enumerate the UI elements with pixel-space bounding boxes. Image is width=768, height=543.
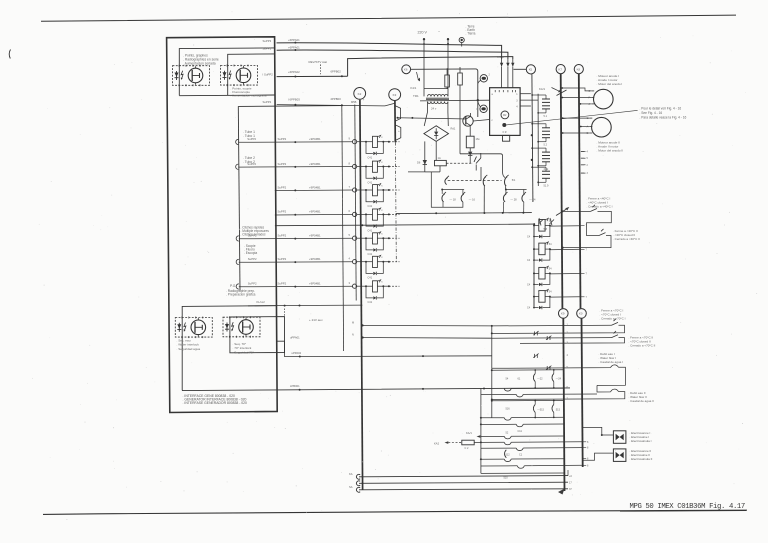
bottom long wire 3 [359,489,568,490]
page top border line [41,15,736,21]
box group A (Points graphes) [179,48,274,96]
svg-text:516: 516 [506,408,511,411]
svg-text:. Electrovalvula II: . Electrovalvula II [630,457,653,461]
svg-text:K5: K5 [529,68,533,72]
row 466 cup [481,465,517,467]
svg-text:K4/1: K4/1 [411,86,417,90]
module top pin ticks [494,90,496,92]
svg-text:. Caudal de agua II: . Caudal de agua II [629,399,655,403]
row 424 cup [481,423,516,425]
bus from K5 down [532,74,533,202]
svg-text:K3: K3 [393,93,397,97]
wire SuPP2 long with step [277,75,348,77]
svg-text:K2: K2 [358,92,362,96]
ring indicator symbol lower [480,105,487,112]
resistor R2 vertical [458,73,463,85]
title underline [620,510,746,513]
bus K8 down [579,74,581,309]
wire row 3 to relay K3 [275,189,353,192]
transformer core [426,97,449,99]
svg-text:C41: C41 [368,253,373,256]
220V feed wires [423,39,425,89]
module terminal dot [502,123,506,127]
top wire SuPP1 [277,50,508,59]
right column rails [533,224,535,308]
svg-text:TR1: TR1 [413,94,419,98]
diode under 16x [468,152,472,156]
svg-text:512: 512 [506,454,511,457]
svg-text:220 V: 220 V [418,31,428,35]
left rail x492 [491,368,493,417]
70C contact I row [492,324,612,327]
squiggle pair row 377 [533,374,535,382]
svg-text:I 6PPB03: I 6PPB03 [288,98,300,102]
bottom long wire 1 [359,476,568,477]
svg-text:SuPP2: SuPP2 [278,185,287,189]
relay coil stamp at y=262 [353,260,357,264]
svg-text:uPPA02: uPPA02 [292,351,302,355]
svg-text:SuPP2: SuPP2 [248,282,257,286]
wires buses to motor II [563,117,590,119]
wire row 4 to relay K4 [275,213,353,216]
electrovalve I [613,431,626,444]
connector circle K3 [389,89,401,101]
cable lug 2 on K3 bus [395,125,401,141]
svg-text:C41: C41 [368,277,373,280]
svg-text:. Cerrado a <40°C I: . Cerrado a <40°C I [587,205,613,209]
svg-text:— 18: — 18 [450,197,457,201]
diode D2 [424,148,426,172]
svg-text:. Cerrado a <70°C I: . Cerrado a <70°C I [600,317,626,321]
svg-text:+6PPA01: +6PPA01 [288,46,300,50]
row 417 cup [481,417,504,419]
capacitor group 1 [542,98,550,100]
svg-text:510: 510 [504,477,509,480]
ladder rail x538 [537,94,539,186]
relay coil 16x [466,136,474,148]
svg-text:I SuPP2: I SuPP2 [263,73,274,77]
bus K9 lower [563,318,564,491]
row 394 [481,394,516,396]
svg-text:51.9: 51.9 [544,184,549,187]
svg-text:+9P04B1: +9P04B1 [309,137,321,141]
ring indicator symbol upper [480,75,487,82]
relay coil right col y=267 [539,267,545,279]
svg-text:P.G.: P.G. [230,284,236,288]
dashed interlock line [448,179,502,181]
squiggle row 453 [505,450,507,458]
svg-text:SuPP2: SuPP2 [278,234,287,238]
left loop wire [431,172,463,207]
svg-text:515: 515 [556,408,561,411]
svg-text:Rd1: Rd1 [451,127,456,131]
motor anode I [594,89,614,109]
svg-text:. Seguridad 70°: . Seguridad 70° [233,350,255,354]
svg-text:C41: C41 [368,157,373,160]
K3 cable dash-dot line [394,142,397,262]
transistor Q1 [463,116,473,126]
svg-text:M5B: M5B [351,100,357,104]
svg-text:KA/1: KA/1 [466,431,472,435]
inline contact row338 [546,336,548,340]
svg-text:C 2: C 2 [465,447,470,450]
svg-text:5/1: 5/1 [512,178,516,182]
svg-text:. Motor del anodo I: . Motor del anodo I [597,82,623,86]
relay coil right col y=220 [539,220,545,232]
svg-text:. Escopia: . Escopia [244,251,257,255]
svg-text:SuPP2: SuPP2 [278,210,287,214]
svg-text:SuPP2: SuPP2 [278,282,287,286]
sub-box water/70 interlock [182,306,277,391]
relay coil stamp at y=286 [353,284,357,288]
svg-text:— 16: — 16 [469,197,476,201]
svg-text:—24: —24 [556,378,562,381]
contact -16 [461,194,464,202]
K5 stub wire [514,68,527,70]
top wire SuPP3 [277,43,502,59]
svg-text:. Para detalle vease la Fig. 4: . Para detalle vease la Fig. 4 - 16 [640,116,687,120]
svg-text:LPB001: LPB001 [290,384,300,388]
relay coil K1A [435,160,447,165]
squiggle pair row 406 [533,404,535,412]
relay coil right col y=243 [539,243,545,255]
bottom long wire 2 [359,482,568,483]
svg-text:K6: K6 [404,68,408,72]
svg-text:5.1: 5.1 [544,115,548,118]
inline contact row333 [534,331,536,335]
svg-text:+9P04B1: +9P04B1 [309,257,321,261]
bus stub labels below motors [581,151,584,153]
module right pins [520,93,531,95]
svg-text:5.2: 5.2 [544,144,548,147]
right column out wires [550,225,581,227]
bridge rectifier [424,126,449,142]
left rail x481 [480,388,482,473]
wire SuPP2 row to K3 [277,103,395,106]
wire R2 to right blade [460,154,505,178]
svg-text:+9P04B1: +9P04B1 [309,234,321,238]
svg-text:+9P04B1: +9P04B1 [309,185,321,189]
indicator lamp C [175,318,212,338]
stray mark left margin [9,50,10,59]
horizontal wire y213 [396,213,532,214]
row 473 [481,472,565,474]
svg-text:SA: SA [349,485,353,489]
bottom wire group hooks [356,474,360,479]
contact blade on dash line left [445,178,448,185]
svg-text:SuPP1: SuPP1 [263,46,272,50]
svg-text:uPPA01: uPPA01 [290,336,300,340]
svg-text:. Preparacion grafica: . Preparacion grafica [226,293,256,297]
wires to electrovalve II [583,453,614,460]
relay connector bus [355,105,356,301]
svg-text:SuPP2: SuPP2 [278,257,287,261]
K3 bus upper segment [394,101,396,142]
svg-text:SuPP2: SuPP2 [263,100,272,104]
svg-text:—22: —22 [537,378,543,381]
wire y325 [363,324,492,327]
svg-text:. INTERFASE GENERADOR 800838 -: . INTERFASE GENERADOR 800838 - 020 [183,401,248,405]
svg-text:C41: C41 [368,182,373,185]
wire row 2 to relay K2 [238,166,352,169]
svg-text:KL/xx2: KL/xx2 [257,300,266,304]
transformer TR1 secondary [428,102,431,104]
connector circle K2 [354,88,366,100]
connector circle K6 [402,65,411,74]
module feeder arrows [501,59,503,66]
contact blade mid [483,177,486,186]
connector circle K8 [574,65,583,74]
svg-text:+9P04B1: +9P04B1 [309,210,321,214]
cable lug 1 on K3 bus [395,106,401,122]
step wire from 70 interlock box [277,341,492,356]
connector circle K5 [526,65,535,74]
inline contact row356 [534,354,536,358]
svg-text:F R: F R [503,131,507,134]
wire row 5 to relay K5 [239,237,353,240]
bus K10 lower [582,318,583,467]
connector circle K7 [556,65,565,74]
wires buses to motor I [562,88,592,91]
dashed link K1A to contact [446,162,473,164]
wire from K6 right then down [411,69,478,117]
module box M2 [490,88,520,136]
svg-text:+9P04B1: +9P04B1 [309,162,321,166]
earth ground symbol [459,37,464,42]
svg-text:2PPB00: 2PPB00 [331,97,342,101]
svg-text:. Aumentacion monografia: . Aumentacion monografia [231,93,267,97]
indicator lamp D [223,317,260,337]
relay coil stamp at y=214 [353,212,357,216]
wire left from D2 [408,171,425,173]
svg-text:K7: K7 [559,67,563,71]
svg-text:SuPP3: SuPP3 [263,39,272,43]
svg-text:KA: KA [349,472,353,476]
svg-text:MPG 50 IMEX C01B36M Fig. 4.17: MPG 50 IMEX C01B36M Fig. 4.17 [630,503,745,511]
bus from K2 down to bottom [360,100,363,490]
wire module to Q1 [473,120,489,122]
inner box edges [238,105,343,108]
svg-text:— 28: — 28 [510,197,517,201]
arrow end bottom [558,489,565,495]
svg-text:SuPP2: SuPP2 [247,137,256,141]
svg-text:. Cerrado a <70°C II: . Cerrado a <70°C II [629,344,656,348]
svg-text:C41: C41 [368,301,373,304]
svg-text:SuPP2: SuPP2 [278,162,287,166]
40C contact I [561,210,563,212]
svg-text:. See Fig. 4 - 16: . See Fig. 4 - 16 [640,111,663,115]
svg-text:C41: C41 [368,205,373,208]
row 459 cup [481,458,504,460]
svg-text:C41: C41 [368,229,373,232]
wire LPB001 long [182,388,570,391]
svg-text:M: M [352,322,354,325]
horizontal wire y225 from interface box [275,224,534,226]
svg-text:. Seguridad agua: . Seguridad agua [177,347,201,351]
electrovalve II [613,449,626,462]
motor anode II [592,117,612,137]
contact -28 [503,194,506,202]
svg-text:KA2: KA2 [434,441,440,445]
svg-text:. Pour le detail voir Fig. 4 -: . Pour le detail voir Fig. 4 - 16 [640,107,682,111]
svg-text:REV/STV stat: REV/STV stat [309,60,328,64]
contact blade right [505,177,508,186]
wire y305 from PG row [248,304,362,307]
connector circle K10 [577,309,587,319]
right stubs bottom network [583,441,587,443]
svg-text:K0: K0 [579,312,583,316]
contact group right rail [506,189,527,191]
row 400 [492,399,564,401]
svg-text:C: C [589,90,591,93]
svg-text:+ 21V aux: + 21V aux [309,318,323,322]
box group B (Points scopie) [179,54,275,96]
svg-text:~: ~ [438,30,440,34]
svg-text:. Tierra: . Tierra [466,32,476,36]
svg-text:. Motor del anodo II: . Motor del anodo II [597,149,624,153]
connector circle K9 [559,309,569,319]
relay coil right col y=291 [539,291,545,303]
capacitor group 4 [542,170,550,172]
indicator lamp A1 [173,66,210,86]
svg-text:SuPP2: SuPP2 [247,162,256,166]
cable slash on bus K7 [557,90,567,96]
ladder cross links [532,94,546,96]
module inner circle M2 [501,111,509,119]
svg-text:. Aumentacion seriada: . Aumentacion seriada [183,61,216,65]
page bottom border line [43,510,747,514]
box 70 interlock [230,317,285,353]
water flow I loop [492,365,626,386]
wire row 1 to relay K1 [238,141,352,144]
wire K3 bus to transistor [398,118,463,119]
row 448 cup [481,447,516,449]
ladder rail junction dots [531,134,533,136]
svg-text:SuPP2: SuPP2 [248,234,257,238]
svg-text:A C B: A C B [497,55,504,59]
svg-text:. Electrovalvula I: . Electrovalvula I [630,439,652,443]
indicator lamp A2 [221,66,258,86]
leader line to detail note [506,110,637,125]
wire y337 [363,337,492,340]
contact drops to bus wire [503,202,505,213]
contact group left rail [442,189,464,191]
interface box outline [167,37,278,413]
inline contact row368 [546,366,548,370]
contact -18 [442,194,445,202]
relay coil stamp at y=142 [353,140,357,144]
svg-text:SuPP2: SuPP2 [278,137,287,141]
bus stubs right [581,151,586,153]
scan speckle [495,21,498,24]
svg-text:16x: 16x [476,137,481,141]
svg-text:D6: D6 [417,161,421,165]
relay coil stamp at y=238 [353,236,357,240]
cable slash on bus at y212 [556,208,569,216]
svg-text:24 v: 24 v [431,107,437,111]
capacitor group 3 [542,151,550,153]
module left pin wire [420,99,490,102]
capacitor group 2 [542,127,550,129]
wire row 370 [492,369,564,371]
wire row 7 to relay K7 [239,285,353,288]
row 388 cups [504,389,511,392]
svg-text:1A: 1A [438,156,441,160]
svg-text:+9P04B1: +9P04B1 [309,282,321,286]
svg-text:KA/1: KA/1 [539,87,546,91]
module bottom tab [503,135,510,141]
relay coil stamp at y=166 [353,164,357,168]
wire row 6 to relay K6 [239,261,353,264]
relay coil stamp at y=190 [353,188,357,192]
svg-text:K9: K9 [561,312,565,316]
connector strip line [342,104,344,351]
wires to electrovalve I [583,427,614,435]
contact S5 [474,157,481,164]
svg-text:—515: —515 [537,408,544,411]
resistor R1 vertical [445,75,450,87]
svg-text:+6PPA02: +6PPA02 [288,70,300,74]
bus K7 down to K circle bottom [561,74,563,309]
svg-text:C11: C11 [518,430,523,433]
svg-text:. Cerrado a <40°C II: . Cerrado a <40°C II [613,237,640,241]
svg-text:N: N [352,334,354,337]
svg-text:+6PPA01: +6PPA01 [288,38,300,42]
svg-text:. Caudal de agua I: . Caudal de agua I [599,360,624,364]
svg-text:C: C [587,117,589,120]
svg-text:SuPP2: SuPP2 [248,257,257,261]
svg-text:K8: K8 [577,67,581,71]
contact pair x545 [539,218,544,226]
svg-text:6PPB02: 6PPB02 [331,70,342,74]
contact -24 [522,194,525,202]
secondary connections [427,102,429,112]
wire contact down [480,167,482,181]
